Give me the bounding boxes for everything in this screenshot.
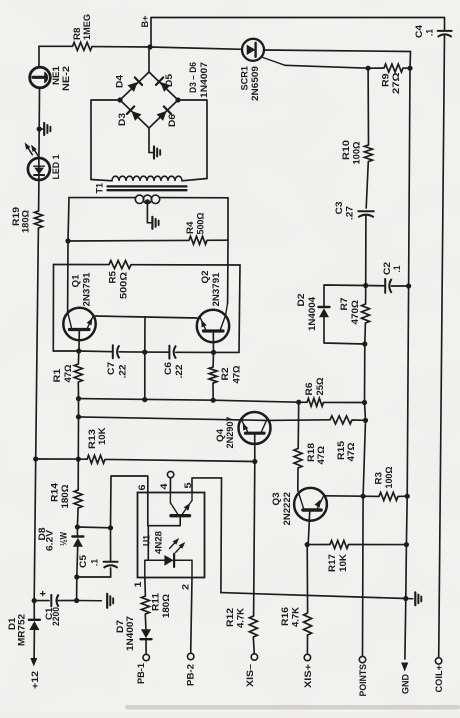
wire D8 column to bottom rail — [76, 577, 78, 601]
pin 1 — [133, 578, 146, 597]
svg-text:R8: R8 — [72, 28, 82, 41]
svg-text:100Ω: 100Ω — [384, 466, 394, 489]
svg-text:4.7K: 4.7K — [290, 607, 300, 627]
wire NE1 to LED1 — [38, 88, 41, 158]
svg-text:4N28: 4N28 — [153, 531, 163, 554]
U1 LED — [145, 554, 192, 578]
svg-text:D4: D4 — [114, 74, 124, 88]
junction R14 top — [76, 457, 81, 462]
svg-text:.22: .22 — [117, 365, 127, 379]
ground (bottom right) — [406, 592, 422, 605]
transformer T1 core — [108, 186, 187, 190]
wire R14 column — [77, 399, 79, 490]
svg-text:NE1: NE1 — [51, 66, 61, 85]
svg-text:R5: R5 — [107, 271, 117, 284]
node T1 center tap — [145, 199, 150, 204]
svg-text:C2: C2 — [382, 262, 392, 275]
capacitor C2 — [366, 262, 409, 293]
junction R17 right — [404, 542, 409, 547]
junction R2 bottom — [211, 398, 216, 403]
diode D3 — [117, 106, 142, 126]
svg-text:D7: D7 — [115, 620, 125, 633]
wire rail to NE1 — [38, 46, 40, 67]
wire Q1 base to center column — [96, 316, 146, 317]
svg-text:1N4004: 1N4004 — [307, 296, 317, 331]
resistor R17 — [327, 541, 349, 573]
svg-text:4: 4 — [159, 483, 169, 490]
terminal GND arrow — [400, 663, 410, 695]
junction Q2 emitter — [211, 350, 216, 355]
svg-text:2N3791: 2N3791 — [211, 273, 221, 307]
junction Q1 emitter — [76, 348, 81, 353]
junction center column bottom — [142, 397, 147, 402]
svg-text:R19: R19 — [11, 207, 21, 226]
svg-text:5: 5 — [183, 483, 193, 489]
svg-text:.1: .1 — [392, 266, 402, 273]
svg-text:2: 2 — [180, 584, 190, 590]
junction R18 top — [296, 400, 301, 405]
wire R5 rail — [54, 264, 241, 267]
svg-text:.1: .1 — [89, 559, 99, 566]
svg-text:2N3791: 2N3791 — [81, 273, 91, 307]
svg-text:10K: 10K — [97, 427, 107, 445]
wire B+ top rail — [151, 18, 445, 48]
svg-text:1N4007: 1N4007 — [199, 62, 209, 98]
svg-text:2N6509: 2N6509 — [250, 66, 260, 101]
svg-text:XIS+: XIS+ — [303, 663, 313, 688]
junction R4 rail left — [65, 238, 70, 243]
svg-text:1N4007: 1N4007 — [125, 616, 135, 651]
pin 4 terminal — [159, 471, 174, 492]
wire SCR gate — [262, 57, 369, 68]
wire R7 bottom to rail — [363, 344, 365, 496]
capacitor C6 — [163, 346, 184, 379]
wire pin6 branch — [111, 476, 148, 528]
svg-text:+12: +12 — [30, 671, 40, 689]
svg-text:C5: C5 — [78, 555, 88, 568]
svg-text:.27: .27 — [344, 206, 354, 220]
svg-text:R17: R17 — [327, 554, 337, 572]
svg-text:COIL+: COIL+ — [434, 664, 444, 692]
wire GND column — [405, 52, 411, 660]
transistor Q4 — [215, 412, 271, 462]
wire base rail (R1/R2 bottoms) — [79, 399, 365, 403]
svg-text:U1: U1 — [141, 535, 151, 546]
junction ground rail right — [403, 596, 408, 601]
LED LED1 — [28, 155, 61, 181]
U1 coupling arrows — [170, 538, 186, 553]
junction ground tap — [37, 126, 42, 131]
resistor R12 — [225, 608, 258, 654]
svg-text:GND: GND — [400, 674, 410, 694]
resistor R19 — [11, 207, 43, 233]
neon lamp NE1 — [30, 66, 71, 91]
pin 5 — [183, 478, 222, 493]
wire C3 to C2 junction — [365, 215, 367, 285]
svg-text:Q2: Q2 — [200, 271, 210, 284]
node bridge AC left — [117, 97, 122, 102]
resistor R4 — [68, 212, 228, 244]
junction center/emitter rail — [142, 350, 147, 355]
resistor R1 — [52, 351, 83, 399]
svg-text:R14: R14 — [49, 482, 59, 502]
ground (bridge) — [149, 147, 160, 159]
wire left loop edge — [68, 198, 69, 312]
terminal POINTS — [358, 656, 368, 696]
resistor R2 — [209, 352, 241, 400]
wire Q4 base rail — [79, 417, 267, 421]
wire left rail down — [34, 228, 38, 601]
terminal PB-2 — [185, 653, 195, 686]
svg-text:R13: R13 — [87, 429, 97, 449]
svg-text:25Ω: 25Ω — [315, 377, 325, 396]
U1 phototransistor — [148, 493, 192, 561]
junction R3 right — [405, 494, 410, 499]
diode D5 — [156, 74, 174, 92]
junction Q4 collector — [252, 459, 257, 464]
capacitor C4 — [414, 24, 452, 38]
junction C5 top — [108, 525, 113, 530]
transistor Q3 — [271, 488, 327, 545]
svg-text:R6: R6 — [304, 383, 314, 396]
junction Q3 collector line — [361, 494, 366, 499]
svg-text:R10: R10 — [341, 140, 351, 160]
svg-text:6: 6 — [137, 485, 147, 491]
svg-text:47Ω: 47Ω — [231, 365, 241, 384]
transformer T1 secondary — [135, 195, 159, 203]
svg-text:D1: D1 — [7, 618, 17, 631]
wire main top rail — [39, 46, 242, 49]
capacitor C1 — [41, 591, 61, 626]
transistor Q1 — [63, 273, 95, 352]
junction R1 bottom — [76, 396, 81, 401]
wire pin5 column — [220, 478, 223, 593]
diode D7 — [115, 616, 152, 654]
svg-text:100Ω: 100Ω — [351, 141, 361, 165]
junction R9 right — [407, 66, 412, 71]
svg-text:B+: B+ — [140, 15, 150, 28]
label D3-D6 1N4007 — [188, 62, 209, 98]
svg-text:D5: D5 — [164, 74, 174, 87]
pin 6 — [137, 485, 147, 491]
svg-text:R16: R16 — [280, 607, 290, 626]
svg-text:D3 – D6: D3 – D6 — [188, 62, 198, 93]
svg-text:2N2907: 2N2907 — [225, 417, 235, 449]
wire center column — [144, 317, 146, 400]
capacitor C3 — [334, 202, 374, 221]
resistor R10 — [341, 68, 373, 208]
svg-text:180Ω: 180Ω — [161, 593, 171, 618]
junction gate/R9/R10 — [366, 66, 371, 71]
diode D4 — [114, 74, 142, 92]
junction D2/R7 bottom — [362, 341, 367, 346]
resistor R7 — [339, 286, 370, 345]
wire bottom-left rail — [34, 600, 76, 602]
wire center tap to ground — [146, 202, 148, 223]
resistor R18 — [294, 402, 326, 490]
resistor R13 — [87, 427, 107, 463]
wire bridge right to primary — [178, 100, 207, 179]
junction base rail left — [76, 414, 81, 419]
svg-text:R4: R4 — [185, 221, 195, 234]
wire bridge diamond edges — [120, 72, 178, 128]
svg-text:D2: D2 — [296, 294, 306, 307]
svg-text:POINTS: POINTS — [358, 664, 368, 697]
svg-text:10K: 10K — [338, 554, 348, 572]
wire bridge bottom to ground — [148, 128, 150, 153]
wire bridge left to primary — [91, 100, 120, 180]
diode D2 — [296, 294, 330, 332]
svg-text:NE-2: NE-2 — [61, 66, 71, 91]
svg-text:47Ω: 47Ω — [63, 364, 73, 383]
optocoupler U1 box — [138, 493, 205, 578]
svg-text:R2: R2 — [220, 368, 230, 381]
svg-text:1: 1 — [133, 582, 143, 588]
junction C1 right — [74, 598, 79, 603]
terminal COIL+ — [434, 658, 444, 693]
diode D1 — [7, 601, 40, 659]
zener diode D8 — [37, 527, 84, 577]
ground (T1 tap) — [147, 217, 158, 229]
svg-text:R7: R7 — [339, 298, 349, 311]
svg-text:MR752: MR752 — [16, 614, 26, 646]
svg-text:27Ω: 27Ω — [391, 72, 401, 94]
wire R17 line — [307, 544, 406, 546]
svg-text:.1: .1 — [424, 29, 434, 36]
junction D8/C5 bottom — [74, 574, 79, 579]
transformer T1 primary — [91, 176, 207, 181]
svg-text:R9: R9 — [380, 74, 390, 88]
scan smudge — [125, 705, 460, 710]
wire D8 link to C5 column — [77, 526, 110, 529]
svg-text:1MEG: 1MEG — [82, 14, 92, 40]
label T1 — [94, 183, 104, 194]
svg-text:47Ω: 47Ω — [346, 442, 356, 462]
terminal XIS- — [245, 654, 258, 687]
svg-text:R15: R15 — [336, 441, 346, 460]
svg-text:6.2V: 6.2V — [44, 529, 54, 551]
svg-text:R11: R11 — [150, 593, 160, 611]
terminal PB-1 — [136, 654, 150, 684]
junction rail/B+/bridge — [147, 44, 152, 49]
wire SCR cathode to corner — [264, 50, 411, 52]
junction D8 top — [75, 524, 80, 529]
ground (C1) — [77, 594, 114, 608]
node bridge AC right — [175, 97, 180, 102]
SCR SCR1 — [239, 39, 264, 101]
node B+ — [140, 15, 150, 28]
junction left rail / R13 branch — [33, 456, 38, 461]
svg-text:180Ω: 180Ω — [20, 209, 30, 233]
resistor R9 — [368, 64, 410, 94]
wire inner box right edge — [239, 265, 240, 352]
svg-text:2200: 2200 — [51, 607, 61, 626]
resistor R15 — [330, 416, 356, 462]
svg-text:500Ω: 500Ω — [118, 271, 128, 299]
svg-text:LED 1: LED 1 — [51, 155, 61, 180]
svg-text:2N2222: 2N2222 — [282, 492, 292, 526]
svg-text:C3: C3 — [334, 202, 344, 215]
svg-text:PB-1: PB-1 — [136, 663, 146, 684]
svg-text:PB-2: PB-2 — [185, 664, 195, 686]
wire R13 branch — [36, 459, 255, 462]
svg-text:T1: T1 — [94, 183, 104, 194]
svg-text:C6: C6 — [163, 362, 173, 375]
svg-text:Q3: Q3 — [271, 493, 281, 506]
junction left rail bottom — [32, 598, 37, 603]
resistor R14 — [49, 482, 82, 527]
wire right loop edge — [227, 198, 229, 303]
svg-text:SCR1: SCR1 — [239, 66, 249, 91]
svg-text:R18: R18 — [306, 443, 316, 462]
junction C2 line left — [363, 283, 368, 288]
junction Q3 emitter — [305, 542, 310, 547]
svg-text:Q1: Q1 — [70, 275, 80, 288]
terminal XIS+ — [303, 654, 313, 688]
wire D2 branch — [324, 285, 366, 344]
svg-text:500Ω: 500Ω — [195, 212, 205, 235]
svg-text:R1: R1 — [52, 369, 62, 383]
capacitor C5 — [77, 528, 118, 577]
junction R6 right / main column — [362, 400, 367, 405]
svg-text:47Ω: 47Ω — [316, 445, 326, 464]
resistor R16 — [280, 607, 312, 655]
svg-text:C4: C4 — [414, 24, 424, 38]
LED1 emission arrows — [25, 142, 39, 157]
wire emitter rail — [53, 351, 239, 352]
diode D6 — [157, 106, 177, 127]
svg-text:½W: ½W — [58, 532, 68, 546]
svg-text:Q4: Q4 — [215, 428, 225, 442]
wire POINTS column — [362, 496, 365, 656]
ground (near NE1) — [39, 123, 50, 135]
pin 2 wire to PB-2 — [180, 578, 192, 654]
capacitor C7 — [106, 345, 128, 378]
svg-text:XIS–: XIS– — [245, 664, 255, 687]
wire secondary rail — [69, 197, 228, 199]
junction C2 right — [406, 283, 411, 288]
resistor R3 — [363, 466, 407, 500]
resistor R8 — [72, 14, 92, 50]
junction R15 right — [363, 418, 368, 423]
wire Q3 emitter column — [306, 545, 308, 613]
wire Q3 collector to main column — [324, 495, 363, 497]
wire LED1 to R19 — [38, 180, 40, 211]
resistor R6 — [304, 377, 325, 406]
svg-text:D3: D3 — [117, 113, 127, 126]
svg-text:C7: C7 — [106, 362, 116, 375]
wire ground rail (bottom) — [221, 593, 406, 599]
svg-text:470Ω: 470Ω — [350, 299, 360, 324]
wire COIL+ column — [439, 35, 445, 658]
wire Q2 base to center column — [145, 317, 197, 318]
wire inner box left edge — [52, 265, 54, 352]
transistor Q2 — [197, 271, 229, 353]
wire bridge riser — [148, 47, 150, 72]
terminal +12 arrow — [30, 658, 40, 689]
svg-text:D6: D6 — [167, 114, 177, 127]
svg-text:R12: R12 — [225, 608, 235, 627]
svg-text:180Ω: 180Ω — [60, 484, 70, 509]
wire R15 line — [267, 419, 366, 422]
svg-text:R3: R3 — [373, 472, 383, 485]
svg-text:.22: .22 — [174, 365, 184, 379]
resistor R11 — [141, 593, 170, 629]
svg-text:4.7K: 4.7K — [235, 608, 245, 628]
resistor R5 — [107, 261, 131, 299]
wire Q4 collector column — [254, 462, 255, 617]
